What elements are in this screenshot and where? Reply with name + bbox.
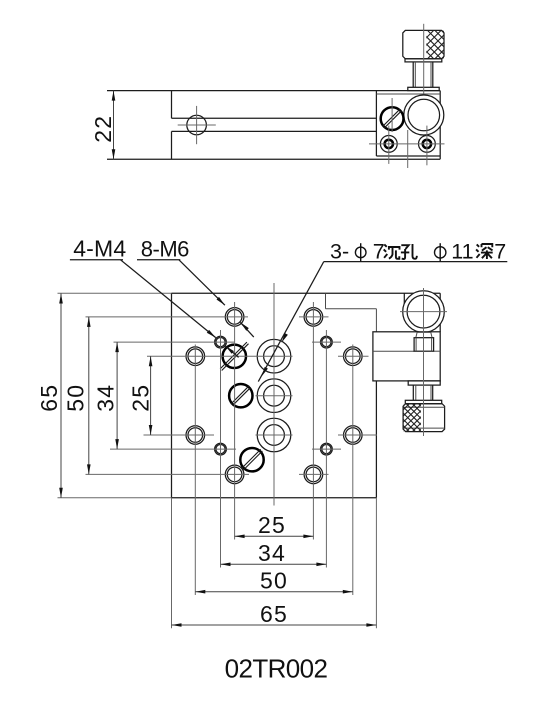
drive knob inner chamfer top: [403, 406, 445, 408]
drive screw thread line right: [430, 385, 432, 400]
dimension 65 left arrow bottom: [59, 488, 63, 498]
knob body (side view, knurled): [403, 30, 444, 58]
column centerline x=234.6 (25 col L): [234, 302, 236, 540]
svg-text:8-M6: 8-M6: [141, 237, 189, 262]
slotted screw 2 head (bold circle): [229, 384, 252, 407]
M6 tapped hole 8 outer circle: [304, 465, 323, 484]
label phi symbol 1 bar: [360, 243, 362, 261]
dimension 65 bottom arrow right: [366, 623, 376, 627]
counterbore middle crosshair: [256, 395, 293, 397]
block left edge (side): [375, 91, 377, 156]
label 3-phi7 leader arrow 2: [262, 367, 268, 377]
dimension 25 bottom line: [235, 535, 314, 537]
svg-text:50: 50: [63, 384, 89, 412]
column centerline x=326.4 (34 col R): [325, 330, 327, 568]
label phi symbol 2 circle: [435, 247, 446, 258]
drive knob knurling hatch (plan): [369, 404, 453, 432]
counterbore hole 3 outer circle (11 dia): [257, 418, 291, 452]
block right edge (side): [439, 91, 441, 160]
M6 tapped hole 3 outer circle: [186, 347, 205, 366]
M4 tapped hole 4 inner circle: [322, 445, 331, 454]
M6 tapped hole 2 inner circle: [306, 310, 321, 325]
dimension 50 bottom arrow left: [195, 590, 205, 594]
column centerline x=220.5 (34 col L): [220, 330, 222, 568]
plate right edge upper segment: [375, 309, 377, 332]
M4 tapped hole 4 outer circle: [321, 443, 333, 455]
svg-text:7: 7: [373, 239, 385, 263]
dimension 50 left arrow bottom: [87, 464, 91, 474]
drive screw thread line left: [415, 385, 417, 400]
side view slot circle: [187, 115, 207, 135]
dimension 25 left line: [150, 356, 152, 435]
slotted screw 3 slot slash: [242, 449, 263, 470]
side view slot bottom line: [172, 130, 377, 132]
slotted screw 1 head (bold circle): [223, 345, 246, 368]
adjustment screw knob end-on inner circle: [408, 99, 440, 131]
side view slot circle horizontal centerline: [178, 124, 216, 126]
lock screw head (bold circle): [381, 107, 404, 130]
counterbore hole 1 inner circle (7 dia): [264, 346, 285, 367]
side hole left vertical centerline: [388, 126, 390, 164]
svg-text:4-M4: 4-M4: [73, 236, 126, 262]
M6 tapped hole 4 inner circle: [346, 349, 361, 364]
knob shaft thread line right: [430, 62, 432, 87]
dimension 22 line: [113, 91, 115, 160]
M6 tapped hole 5 inner circle: [188, 428, 203, 443]
M4 tapped hole 2 inner circle: [322, 338, 331, 347]
clamp block inner line left: [373, 350, 414, 352]
dimension 34 bottom arrow left: [221, 563, 231, 567]
dimension 25 bottom arrow left: [235, 535, 245, 539]
knob shaft thread line left: [414, 62, 416, 87]
M6 tapped hole 5 outer circle: [186, 426, 205, 445]
dimension 50 bottom arrow right: [343, 590, 353, 594]
block bottom edge (side): [376, 155, 440, 157]
knob shaft left edge: [412, 62, 414, 87]
side view slot circle vertical centerline: [196, 106, 198, 144]
side view body top edge + dim extension: [107, 90, 440, 92]
label CJK glyph chen(sunk): [384, 244, 400, 258]
extension line top edge (65): [58, 292, 172, 294]
side view body left edge lower: [171, 131, 173, 159]
side hole right inner circle (bold): [423, 140, 431, 148]
svg-text:50: 50: [260, 568, 288, 594]
plate top edge: [172, 292, 441, 294]
svg-text:65: 65: [36, 384, 62, 412]
side view body bottom edge + dim extension: [107, 158, 440, 160]
label CJK glyph shen(deep): [476, 244, 493, 259]
extension line bottom edge (65): [58, 497, 172, 499]
dimension 22 arrow up: [112, 91, 116, 101]
dimension 34 left arrow bottom: [115, 439, 119, 449]
M6 tapped hole 8 inner circle: [306, 467, 321, 482]
slotted screw 3 head (bold circle): [240, 448, 263, 471]
row centerline y=316.9 (50 row top): [86, 316, 249, 318]
column centerline x=352.8 (50 col R): [352, 345, 354, 596]
counterbore hole 1 outer circle (11 dia): [257, 339, 291, 373]
clamp block inner line right: [434, 350, 441, 352]
dimension 65 left arrow top: [59, 294, 63, 304]
svg-text:22: 22: [90, 115, 116, 143]
column centerline x=195.3 (50 col L): [194, 345, 196, 596]
slotted screw 2 slot slash: [231, 386, 251, 406]
M6 hole 2 crosshair: [299, 316, 329, 318]
knob vertical centerline (side): [423, 24, 425, 132]
row centerline y=342.1 (34 row top): [114, 341, 235, 343]
M6 tapped hole 7 inner circle: [227, 467, 242, 482]
label 3-phi7 leader line: [258, 262, 324, 382]
dimension 65 bottom arrow left: [172, 623, 182, 627]
M4 tapped hole 3 inner circle: [216, 445, 225, 454]
svg-text:7: 7: [494, 239, 506, 263]
M4 hole 4 crosshair: [312, 448, 341, 450]
dimension 34 left arrow top: [115, 342, 119, 352]
label phi symbol 2 bar: [439, 243, 441, 261]
svg-text:02TR002: 02TR002: [225, 654, 328, 684]
label 3-phi7 leader arrow 1: [282, 333, 288, 343]
label 8-M6 leader arrow: [217, 297, 225, 305]
side hole right outer circle: [419, 136, 436, 153]
M6 tapped hole 6 outer circle: [344, 426, 363, 445]
svg-text:34: 34: [93, 384, 119, 412]
M6 tapped hole 6 inner circle: [346, 428, 361, 443]
svg-text:11: 11: [451, 239, 473, 263]
M6 tapped hole 1 inner circle: [227, 310, 242, 325]
svg-text:25: 25: [127, 384, 153, 412]
M4 tapped hole 2 outer circle: [321, 336, 333, 348]
svg-text:3-: 3-: [330, 239, 349, 263]
dimension 34 bottom line: [221, 563, 327, 565]
side hole left outer circle: [380, 136, 397, 153]
M4 tapped hole 1 inner circle: [216, 338, 225, 347]
counterbore hole 2 outer circle (11 dia): [257, 379, 291, 413]
label 4-M4 underline: [70, 259, 123, 261]
label CJK glyph kong(hole): [401, 244, 417, 259]
M6 tapped hole 3 inner circle: [188, 349, 203, 364]
dimension 50 left arrow top: [87, 317, 91, 327]
lock shaft thread left: [415, 338, 417, 352]
plate recess step vertical: [325, 293, 327, 309]
mid centerline below block: [407, 130, 409, 168]
drive screw shaft right edge: [432, 385, 434, 400]
M6 tapped hole 7 outer circle: [225, 465, 244, 484]
side hole right vertical centerline: [426, 126, 428, 166]
dimension 34 left line: [116, 342, 118, 449]
M6 hole 6 crosshair: [338, 434, 377, 436]
label 4-M4 second leader arrow: [225, 346, 234, 354]
M6 hole 4 crosshair: [338, 355, 369, 357]
label 4-M4 leader arrow: [207, 330, 216, 338]
M4 tapped hole 1 outer circle: [215, 336, 227, 348]
column centerline x=313.4 (25 col R): [312, 302, 314, 540]
side view slot top line: [172, 117, 377, 119]
svg-text:34: 34: [258, 540, 286, 566]
lock knob horizontal centerline: [400, 311, 447, 313]
clamp flange square right edge: [439, 293, 441, 332]
label 3-phi7 underline: [324, 261, 508, 263]
knob shaft right edge: [432, 62, 434, 87]
lock shaft thread right: [431, 338, 433, 352]
side hole left inner circle (bold): [385, 140, 393, 148]
label 8-M6 second leader arrow: [240, 322, 248, 330]
side view body left edge upper: [171, 91, 173, 119]
label 8-M6 second leader segment: [240, 322, 253, 337]
label 4-M4 second leader segment: [225, 346, 238, 358]
row centerline y=474.4 (50 row bottom): [86, 473, 250, 475]
row centerline y=356.2 (25 row top): [147, 355, 293, 357]
drive screw shaft left edge: [412, 385, 414, 400]
M4 hole 2 crosshair: [312, 341, 341, 343]
lock knob shaft (plan): [414, 338, 434, 352]
dimension 65 bottom line: [172, 624, 377, 626]
plate bottom edge: [172, 497, 377, 499]
drive screw collar (plan): [408, 381, 440, 385]
dimension 25 left arrow bottom: [149, 425, 153, 435]
dimension 50 left line: [88, 317, 90, 475]
clamp block (plan): [373, 332, 440, 381]
dimension 65 left line: [60, 294, 62, 498]
extension line below plate left edge: [171, 498, 173, 629]
lock knob top-view outer circle: [403, 291, 445, 333]
center column vertical centerline: [273, 283, 275, 506]
svg-text:25: 25: [258, 512, 286, 538]
M4 tapped hole 3 outer circle: [215, 443, 227, 455]
counterbore hole 2 inner circle (7 dia): [264, 385, 285, 406]
dimension 34 bottom arrow right: [316, 563, 326, 567]
slotted screw 1 slot slash: [220, 342, 248, 370]
lock knob top-view inner circle: [407, 295, 440, 328]
plate recess step horizontal: [326, 308, 377, 310]
M6 tapped hole 1 outer circle: [225, 308, 244, 327]
knob shaft collar (side): [408, 87, 439, 90]
label phi symbol 1 circle: [355, 247, 366, 258]
dimension 25 left arrow top: [149, 356, 153, 366]
lock screw vertical centerline: [391, 98, 393, 132]
adjustment screw knob end-on outer circle: [404, 95, 444, 135]
row centerline y=435.0 (25 row bottom): [144, 434, 215, 436]
counterbore bottom crosshair: [256, 434, 293, 436]
M6 tapped hole 2 outer circle: [304, 308, 323, 327]
dimension 22 arrow down: [112, 149, 116, 159]
counterbore hole 3 inner circle (7 dia): [264, 425, 285, 446]
M6 tapped hole 4 outer circle: [344, 347, 363, 366]
M6 hole 8 crosshair: [299, 473, 329, 475]
label 8-M6 leader line: [179, 260, 225, 305]
drive knob flange (plan): [405, 400, 441, 403]
plate left edge: [171, 293, 173, 498]
drive knob body (plan, knurled): [403, 404, 445, 432]
extension line below plate right edge: [375, 498, 377, 629]
drive knob inner chamfer bottom: [403, 427, 445, 429]
lock knob collar (plan): [416, 332, 432, 337]
knob knurling hatch (side): [391, 30, 479, 58]
label 4-M4 leader line: [121, 260, 216, 338]
label 8-M6 underline: [137, 259, 180, 261]
clamp flange square left corner: [403, 293, 405, 303]
lock knob long vertical centerline (plan): [423, 288, 425, 436]
row centerline y=449.1 (34 row bottom): [110, 448, 236, 450]
svg-text:65: 65: [260, 601, 288, 627]
plate right edge lower segment: [375, 381, 377, 498]
dimension 25 bottom arrow right: [303, 535, 313, 539]
side holes horizontal centerline: [369, 143, 445, 145]
block top step line (side): [376, 93, 440, 95]
knob flange (side): [405, 59, 442, 62]
lock screw slot slash: [383, 109, 402, 128]
dimension 50 bottom line: [195, 591, 352, 593]
